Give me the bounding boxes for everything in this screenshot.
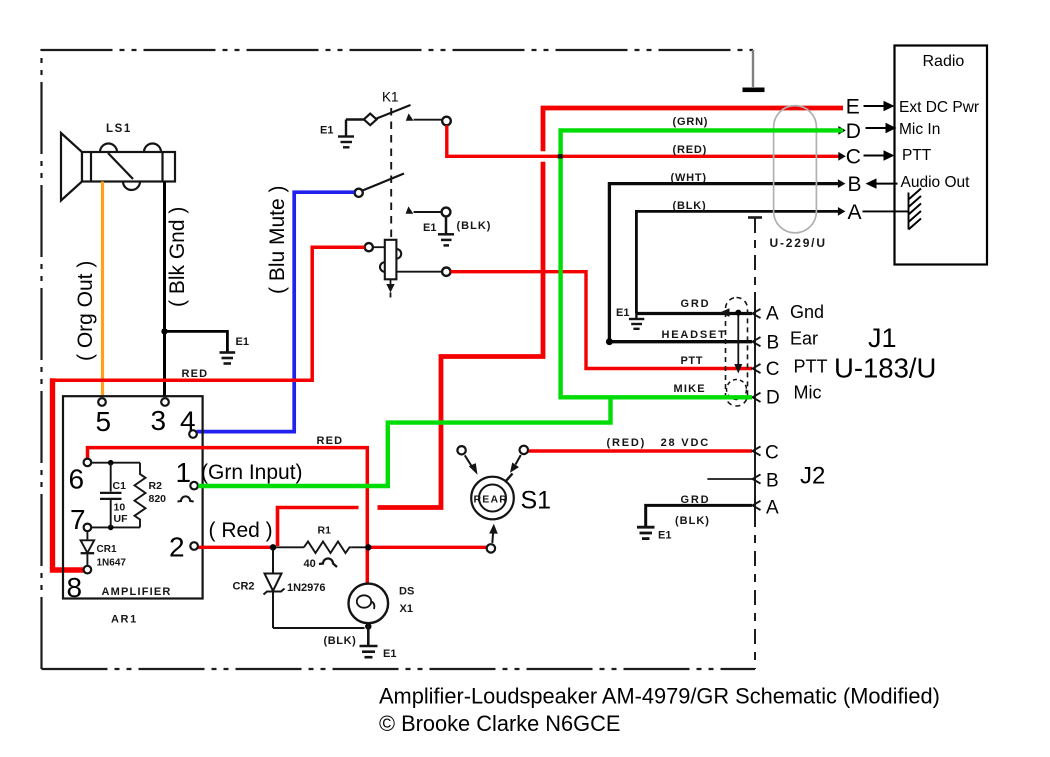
wire red J2 C 28VDC xyxy=(528,449,752,453)
svg-text:C: C xyxy=(846,146,861,169)
arrow D into radio xyxy=(866,127,887,129)
svg-text:5: 5 xyxy=(96,406,112,437)
wire black GRD row to J1 A xyxy=(636,312,752,315)
arrow B out of radio xyxy=(866,178,877,188)
chevron J2 C xyxy=(753,446,761,455)
relay K1 coil xyxy=(380,240,401,279)
junction C1 top xyxy=(108,460,114,466)
svg-text:C: C xyxy=(766,359,780,380)
svg-text:© Brooke Clarke N6GCE: © Brooke Clarke N6GCE xyxy=(379,711,620,736)
ground E1 (K1 contact 2) xyxy=(438,217,454,246)
pin 3 circle xyxy=(161,398,169,406)
K1 moving contact 2 circle xyxy=(355,189,363,197)
coil right lead xyxy=(396,271,442,273)
coil right terminal circle xyxy=(442,268,450,276)
resistor R2 (vertical zigzag) xyxy=(135,463,146,528)
svg-text:PTT: PTT xyxy=(794,357,828,377)
coil left terminal circle xyxy=(365,243,373,251)
ground E1 (J1 GRD) xyxy=(629,314,644,329)
svg-text:AMPLIFIER: AMPLIFIER xyxy=(102,586,172,598)
svg-text:(BLK): (BLK) xyxy=(675,515,710,527)
svg-text:7: 7 xyxy=(70,504,86,535)
svg-text:8: 8 xyxy=(67,572,83,603)
wire green: Radio D Mic In to J1 D MIKE xyxy=(561,130,843,397)
arrow C into radio xyxy=(864,155,885,157)
svg-text:( Red ): ( Red ) xyxy=(209,519,273,542)
junction R1/lamp xyxy=(365,544,371,550)
svg-text:E: E xyxy=(846,96,860,119)
schematic dash-dot border (left, top, bottom) xyxy=(42,50,756,669)
pin 8 circle xyxy=(84,566,92,574)
svg-text:B: B xyxy=(767,332,780,353)
chassis ground hatch (Radio) xyxy=(909,189,922,230)
arrow E into radio xyxy=(864,105,885,107)
svg-text:REAR: REAR xyxy=(474,494,509,506)
top-right termination bar xyxy=(743,88,765,93)
svg-text:GRD: GRD xyxy=(681,298,711,310)
svg-text:( Blk Gnd ): ( Blk Gnd ) xyxy=(166,207,189,307)
wire black gnd branch to E1 xyxy=(165,331,228,351)
lamp bottom junction xyxy=(365,623,371,629)
svg-text:( Org Out ): ( Org Out ) xyxy=(74,261,97,361)
zener CR2 xyxy=(264,549,365,628)
chevron J1 D xyxy=(753,393,761,402)
J1 connector shell dashed capsule xyxy=(726,298,748,407)
svg-text:(BLK): (BLK) xyxy=(457,220,492,232)
K1 moving contact diamond xyxy=(364,114,377,126)
amplifier internal top wire pin6-R2 xyxy=(91,462,140,464)
chevron J1 C xyxy=(753,364,761,373)
svg-text:D: D xyxy=(766,388,780,409)
svg-text:(Grn Input): (Grn Input) xyxy=(201,461,303,484)
amplifier box AR1 xyxy=(63,396,203,598)
svg-text:(BLK): (BLK) xyxy=(324,635,357,647)
top-right border drop line xyxy=(752,50,754,87)
Radio box xyxy=(895,46,988,265)
wire red thick down to pin 8 xyxy=(53,378,86,570)
K1 switch arm 1 xyxy=(377,105,411,119)
svg-text:U-183/U: U-183/U xyxy=(834,353,936,384)
svg-text:Gnd: Gnd xyxy=(790,302,824,322)
svg-text:E1: E1 xyxy=(236,336,249,348)
J1 link arrow down xyxy=(734,364,742,374)
green/red crossing dark spot xyxy=(558,154,563,158)
K1 actuator dashed line xyxy=(390,108,392,240)
amplifier internal bottom wire pin7-R2 xyxy=(91,526,140,528)
wire red pin6 to lamp net xyxy=(88,448,368,584)
svg-text:10: 10 xyxy=(114,502,126,514)
svg-text:PTT: PTT xyxy=(902,147,932,164)
loudspeaker LS1 cone xyxy=(61,133,82,201)
arrowhead A row xyxy=(838,207,846,216)
svg-text:(WHT): (WHT) xyxy=(671,172,707,184)
ground E1 (K1 contact 1) xyxy=(338,120,364,148)
svg-text:E1: E1 xyxy=(383,648,396,660)
J1 shorting link line xyxy=(737,313,739,366)
K1 coil plunger arrow xyxy=(390,279,392,284)
lamp DS1 xyxy=(349,584,389,624)
wire red thick power net continues (hop gap at C row) xyxy=(378,162,544,508)
wire black WHT: Radio B Audio Out to J1 B HEADSET xyxy=(609,184,840,342)
wire red PTT from K1 contact to Radio C xyxy=(447,125,843,156)
junction on speaker gnd xyxy=(161,328,167,334)
svg-text:C1: C1 xyxy=(113,480,127,492)
wire red: coil left to amplifier pin 8 feed xyxy=(53,247,365,380)
wire red thick: Radio E / Ext DC Pwr power net xyxy=(543,108,843,151)
wire A to chassis ground xyxy=(863,210,909,212)
wire orange (Org Out) xyxy=(101,182,104,397)
junction pin2/R1/CR2 xyxy=(270,544,276,550)
svg-text:40: 40 xyxy=(304,558,316,570)
S1 terminal upper-right xyxy=(520,446,528,454)
svg-text:Mic: Mic xyxy=(794,383,822,403)
svg-text:1N2976: 1N2976 xyxy=(287,582,326,594)
resistor R1 zigzag xyxy=(304,542,352,554)
svg-text:J2: J2 xyxy=(800,463,825,490)
pin 5 circle xyxy=(98,398,106,406)
svg-text:4: 4 xyxy=(180,406,196,437)
J1 link junction dot xyxy=(735,310,741,316)
svg-text:B: B xyxy=(766,470,779,491)
loudspeaker LS1 body xyxy=(82,144,175,191)
J1 link arrow left on GRD row xyxy=(720,308,730,317)
wire blue mute: K1 to pin 4 xyxy=(197,192,355,431)
svg-text:( Blu Mute ): ( Blu Mute ) xyxy=(266,185,289,294)
rotary switch S1 xyxy=(471,477,514,520)
arrowhead B row xyxy=(838,179,846,188)
junction C1 bottom xyxy=(108,525,114,531)
svg-text:MIKE: MIKE xyxy=(674,383,706,395)
svg-text:Radio: Radio xyxy=(923,53,965,70)
junction WHT/HEADSET xyxy=(606,338,613,345)
K1 fixed contact triangle 1 xyxy=(406,113,414,120)
K1 fixed contact triangle 2 xyxy=(406,206,414,213)
ground E1 (speaker) xyxy=(220,353,236,364)
svg-text:(RED): (RED) xyxy=(673,144,708,156)
wire contact1 to terminal xyxy=(414,119,442,121)
svg-text:2: 2 xyxy=(169,532,185,563)
pin 7 circle xyxy=(84,524,92,532)
svg-text:(RED) 28 VDC: (RED) 28 VDC xyxy=(607,437,710,449)
svg-text:Mic In: Mic In xyxy=(899,121,940,138)
wire red R1 to S1 xyxy=(370,546,487,549)
wire green branch to amplifier pin 1 xyxy=(198,397,610,486)
connector line top tick xyxy=(748,216,762,219)
svg-text:6: 6 xyxy=(69,464,85,495)
svg-text:J1: J1 xyxy=(868,323,897,353)
connector U-229/U capsule xyxy=(774,106,817,233)
svg-text:1N647: 1N647 xyxy=(97,558,127,569)
ground E1 (J2) xyxy=(637,527,655,538)
chevron J2 A xyxy=(753,501,761,510)
wire red pin 2 xyxy=(198,546,271,549)
wire J2 B stub xyxy=(707,478,752,480)
arrowhead D row xyxy=(838,126,846,135)
svg-text:GRD: GRD xyxy=(681,494,711,506)
svg-text:E1: E1 xyxy=(658,530,671,542)
svg-text:A: A xyxy=(766,304,779,325)
svg-text:K1: K1 xyxy=(382,90,399,105)
svg-text:R1: R1 xyxy=(318,525,332,537)
S1 terminal upper-left xyxy=(457,446,465,454)
wire black J2 A GRD xyxy=(646,505,752,526)
svg-text:LS1: LS1 xyxy=(106,123,132,135)
svg-text:PTT: PTT xyxy=(681,355,704,367)
svg-text:820: 820 xyxy=(149,493,167,505)
ground E1 (lamp) xyxy=(360,623,378,657)
svg-text:D: D xyxy=(846,120,861,143)
svg-text:RED: RED xyxy=(182,368,209,380)
svg-text:DS: DS xyxy=(399,586,414,598)
svg-text:E1: E1 xyxy=(423,222,436,234)
pin 4 circle xyxy=(189,430,197,438)
svg-text:1: 1 xyxy=(176,457,192,488)
diode CR1 xyxy=(81,463,95,566)
wire contact2 to terminal xyxy=(414,211,442,213)
svg-text:C: C xyxy=(765,443,779,464)
svg-text:X1: X1 xyxy=(400,603,413,615)
svg-text:(GRN): (GRN) xyxy=(673,116,709,128)
svg-text:RED: RED xyxy=(317,435,344,447)
svg-text:B: B xyxy=(848,173,862,196)
chevron J2 B xyxy=(753,474,761,483)
svg-text:CR1: CR1 xyxy=(97,544,117,555)
resistor R1 leads xyxy=(271,546,304,548)
terminal circle K1 NO contact xyxy=(442,117,451,126)
svg-text:E1: E1 xyxy=(320,125,333,137)
svg-text:UF: UF xyxy=(114,513,129,525)
svg-text:CR2: CR2 xyxy=(233,581,255,593)
svg-text:AR1: AR1 xyxy=(111,614,138,626)
svg-text:Ext DC Pwr: Ext DC Pwr xyxy=(899,99,979,116)
svg-text:(BLK): (BLK) xyxy=(673,200,707,212)
pin 2 circle xyxy=(190,542,198,550)
svg-text:S1: S1 xyxy=(521,487,552,515)
chevron J1 A xyxy=(753,309,761,318)
svg-text:U-229/U: U-229/U xyxy=(770,236,827,250)
K1 switch arm 2 xyxy=(363,174,405,191)
J1 inner dashed circle xyxy=(727,380,747,400)
svg-text:Ear: Ear xyxy=(790,329,818,349)
arrowhead C row xyxy=(838,152,846,161)
wire black speaker gnd xyxy=(163,182,166,397)
svg-text:3: 3 xyxy=(151,405,167,436)
svg-text:A: A xyxy=(848,201,862,224)
chevron J1 B xyxy=(753,337,761,346)
svg-text:R2: R2 xyxy=(149,480,163,492)
svg-text:HEADSET: HEADSET xyxy=(662,329,727,341)
pin 6 circle xyxy=(84,459,92,467)
terminal circle K1 NC contact xyxy=(442,208,451,217)
wire red: coil right to J1 C PTT xyxy=(451,272,753,369)
coil left lead xyxy=(373,246,385,248)
capacitor C1 xyxy=(100,463,122,528)
wire red power net to pin2 junction (hop gap at lamp wire) xyxy=(278,508,359,547)
svg-text:Audio Out: Audio Out xyxy=(901,174,971,191)
connector dashed line J1/J2 xyxy=(754,218,756,296)
S1 terminal bottom xyxy=(487,544,495,552)
wire black BLK: Radio A to E1 ground xyxy=(636,211,840,313)
svg-text:A: A xyxy=(766,498,779,519)
svg-text:E1: E1 xyxy=(616,307,629,319)
pin 1 circle xyxy=(190,482,198,490)
svg-text:Amplifier-Loudspeaker AM-4979/: Amplifier-Loudspeaker AM-4979/GR Schemat… xyxy=(379,684,940,709)
